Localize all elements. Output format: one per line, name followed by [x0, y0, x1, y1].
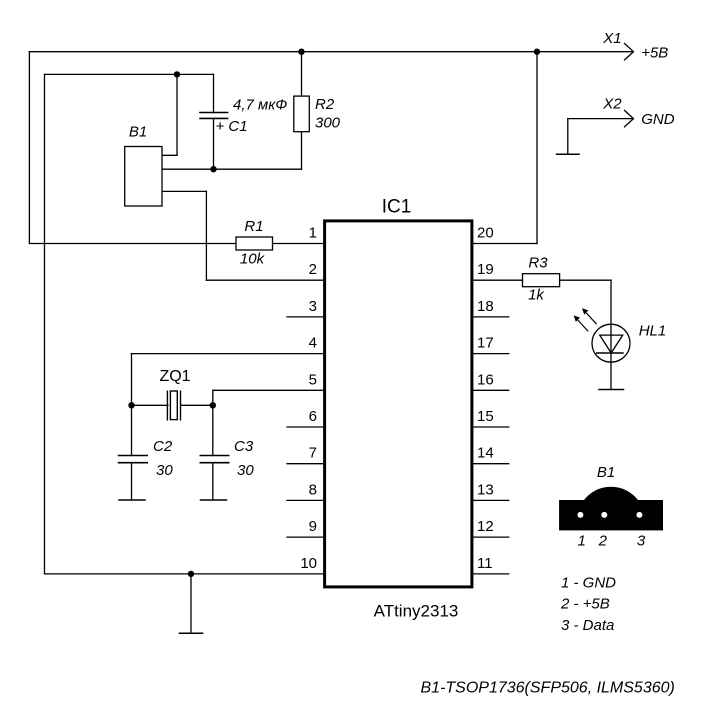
op IC1 ATtiny2313 body	[325, 221, 472, 587]
wire C2 top stem	[131, 405, 133, 455]
svg-text:14: 14	[477, 445, 494, 462]
svg-text:1: 1	[578, 533, 586, 550]
node: C1 / mid rail junction	[210, 166, 216, 172]
resistor R1 body	[236, 237, 273, 250]
node: +5V/pin20 junction	[534, 49, 540, 55]
wire C3 bottom stem	[212, 463, 214, 500]
svg-text:+ C1: + C1	[216, 118, 248, 135]
wire ZQ1 left lead	[132, 404, 169, 406]
wire B1 data drop	[205, 191, 207, 280]
node: ZQ1 right junction	[210, 402, 216, 408]
LED HL1 emission arrow 2	[582, 308, 597, 324]
svg-text:2: 2	[598, 533, 608, 550]
wire ZQ1 right lead	[181, 404, 213, 406]
wire +5V top rail	[29, 51, 633, 53]
pin 11 stub	[471, 573, 509, 575]
svg-text:3 - Data: 3 - Data	[561, 617, 614, 634]
svg-text:8: 8	[309, 481, 317, 498]
svg-text:IC1: IC1	[382, 197, 412, 218]
wire pin 4 horizontal	[132, 353, 324, 355]
svg-text:30: 30	[156, 462, 173, 479]
svg-text:R3: R3	[528, 255, 548, 272]
wire pin 19 to R3	[471, 279, 523, 281]
pin 14 stub	[471, 463, 509, 465]
svg-text:13: 13	[477, 481, 494, 498]
svg-text:1 - GND: 1 - GND	[561, 575, 616, 592]
svg-text:300: 300	[315, 115, 341, 132]
connector B1 hole 2	[601, 512, 607, 518]
svg-text:18: 18	[477, 298, 494, 315]
wire pin 5 horizontal	[213, 389, 323, 391]
svg-text:R2: R2	[315, 96, 335, 113]
node: GND rail / B1 pin1 junction	[174, 71, 180, 77]
svg-text:B1: B1	[597, 464, 615, 481]
svg-text:X1: X1	[602, 30, 621, 47]
svg-text:ZQ1: ZQ1	[159, 368, 190, 385]
node: ZQ1 left junction	[128, 402, 134, 408]
svg-text:9: 9	[309, 518, 317, 535]
wire X2 horizontal	[568, 118, 633, 120]
wire B1 pin1 riser	[176, 74, 178, 155]
svg-text:ATtiny2313: ATtiny2313	[374, 602, 459, 621]
connector B1 pictorial body	[559, 487, 663, 531]
wire GND second rail horizontal	[45, 73, 214, 75]
svg-text:HL1: HL1	[639, 323, 667, 340]
svg-text:17: 17	[477, 335, 494, 352]
svg-text:B1: B1	[129, 124, 147, 141]
pin 12 stub	[471, 536, 509, 538]
resistor R3 body	[523, 274, 560, 287]
svg-text:R1: R1	[244, 218, 263, 235]
pin 13 stub	[471, 499, 509, 501]
wire pin4 drop to ZQ1	[131, 354, 133, 406]
svg-text:C3: C3	[234, 438, 254, 455]
wire C1 top	[213, 74, 215, 112]
svg-text:+5B: +5B	[641, 45, 668, 62]
wire B1 data stub	[162, 190, 206, 192]
svg-text:4: 4	[309, 335, 317, 352]
LED HL1 circle	[592, 324, 630, 362]
wire B1 pin1 stub	[162, 154, 177, 156]
svg-text:20: 20	[477, 225, 494, 242]
connector B1 hole 3	[636, 512, 642, 518]
pin 3 stub	[287, 316, 323, 318]
svg-text:7: 7	[309, 445, 317, 462]
wire data to pin 2	[206, 279, 323, 281]
wire ground stem bottom	[190, 574, 192, 633]
svg-text:10k: 10k	[240, 251, 266, 268]
svg-text:11: 11	[477, 555, 493, 572]
capacitor C2 plates	[118, 456, 148, 463]
wire R1 to pin 1	[273, 243, 324, 245]
wire GND second rail left drop	[44, 74, 46, 574]
pin 16 stub	[471, 389, 509, 391]
svg-text:2 - +5B: 2 - +5B	[560, 596, 610, 613]
svg-text:5: 5	[309, 371, 317, 388]
svg-text:12: 12	[477, 518, 494, 535]
crystal ZQ1	[167, 391, 180, 421]
ground bar X2	[557, 153, 580, 155]
capacitor C1 plates	[199, 113, 228, 119]
wire pin1 from left rail to R1	[29, 243, 236, 245]
wire pin5 riser	[212, 390, 214, 405]
connector B1 hole 1	[577, 512, 583, 518]
connector X2 arrow	[625, 110, 634, 126]
wire mid rail B1 to R2	[162, 168, 302, 170]
svg-text:GND: GND	[641, 111, 675, 128]
svg-text:1: 1	[309, 225, 317, 242]
svg-text:19: 19	[477, 261, 494, 278]
svg-text:C2: C2	[153, 438, 173, 455]
svg-text:15: 15	[477, 408, 494, 425]
ground bar LED	[599, 389, 624, 391]
IR receiver B1 box	[125, 147, 162, 207]
resistor R2 body	[294, 96, 310, 132]
wire R3 to LED corner	[560, 279, 611, 281]
LED HL1 cathode bar	[596, 352, 624, 354]
pin 8 stub	[287, 499, 323, 501]
pin 15 stub	[471, 426, 509, 428]
LED HL1 triangle	[600, 335, 623, 353]
wire LED drop	[610, 280, 612, 389]
wire C3 top stem	[212, 405, 214, 455]
wire R2 top	[301, 52, 303, 96]
pin 17 stub	[471, 353, 509, 355]
LED HL1 emission arrow 1	[574, 315, 589, 331]
svg-text:X2: X2	[602, 96, 622, 113]
svg-text:3: 3	[309, 298, 317, 315]
node: pin10 / ground junction	[188, 571, 194, 577]
wire +5V left drop	[28, 52, 30, 244]
svg-text:2: 2	[309, 261, 317, 278]
node: +5V/R2 junction	[298, 49, 304, 55]
wire pin 20 stub	[471, 243, 538, 245]
connector X1 arrow	[625, 44, 634, 60]
pin 6 stub	[287, 426, 323, 428]
ground bar bottom	[180, 632, 203, 634]
svg-text:4,7 мкФ: 4,7 мкФ	[233, 97, 287, 114]
wire pin 10 horizontal	[45, 573, 324, 575]
svg-text:16: 16	[477, 371, 494, 388]
svg-text:B1-TSOP1736(SFP506, ILMS5360): B1-TSOP1736(SFP506, ILMS5360)	[421, 679, 675, 696]
ground bar C3	[201, 499, 227, 501]
svg-text:3: 3	[637, 533, 646, 550]
wire pin 20 riser to +5V	[536, 52, 538, 244]
wire C2 bottom stem	[131, 463, 133, 500]
wire R2 bottom	[301, 132, 303, 170]
wire C1 bottom to mid rail	[213, 118, 215, 169]
svg-text:30: 30	[237, 462, 254, 479]
svg-text:1k: 1k	[528, 287, 545, 304]
svg-text:6: 6	[309, 408, 317, 425]
pin 9 stub	[287, 536, 323, 538]
svg-text:10: 10	[300, 555, 317, 572]
pin 7 stub	[287, 463, 323, 465]
ground bar C2	[119, 499, 145, 501]
wire X2 drop	[567, 119, 569, 155]
capacitor C3 plates	[200, 456, 230, 463]
pin 18 stub	[471, 316, 509, 318]
